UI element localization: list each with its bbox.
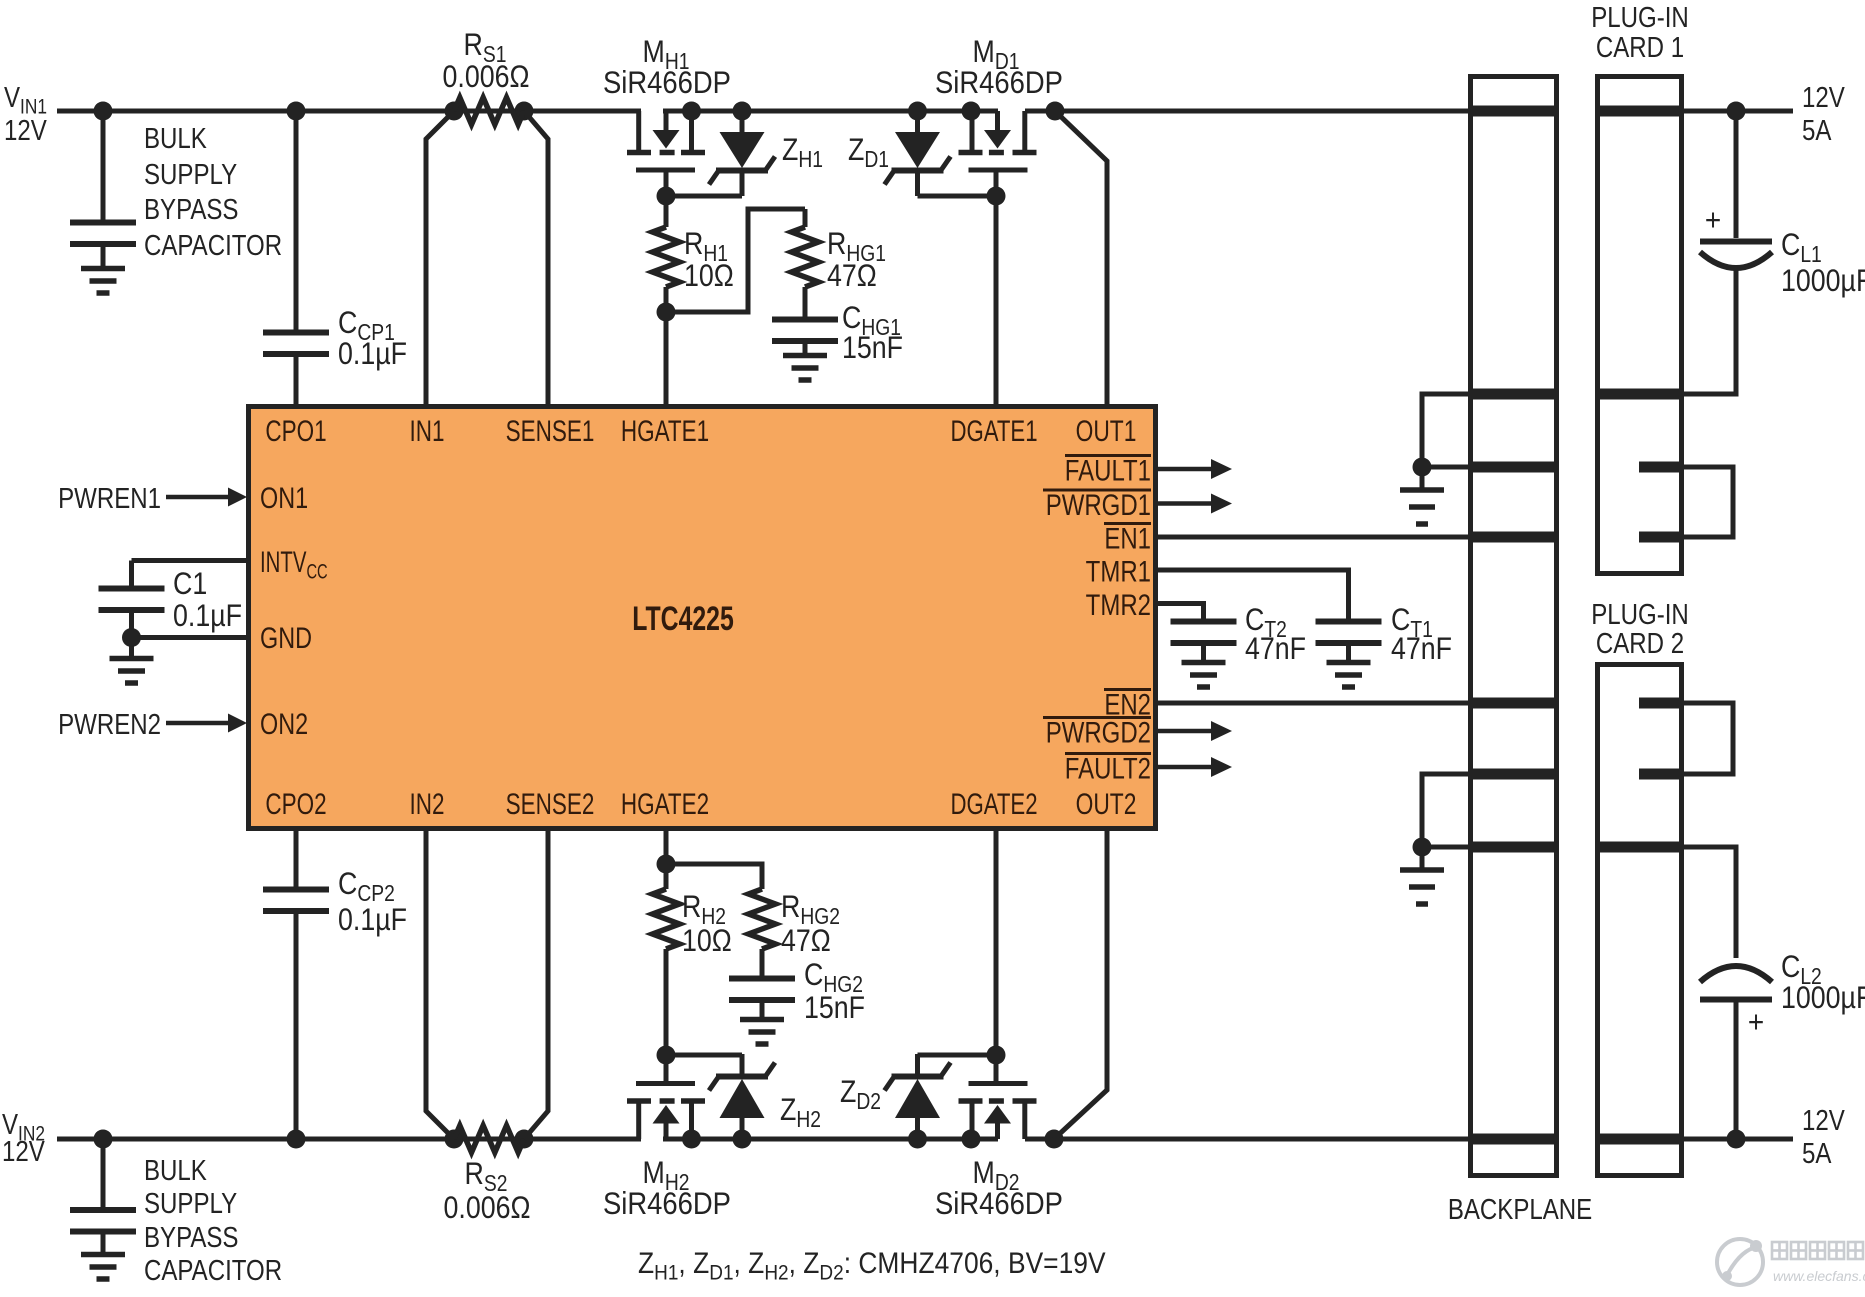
label CCP1 0.1uF	[338, 306, 395, 345]
wire RH2 node to RHG2	[666, 864, 762, 889]
pin ON1 label	[260, 481, 308, 514]
wire PWRGD1 output arrow	[1158, 501, 1212, 506]
pin backplane VIN1 bar	[1468, 106, 1559, 117]
wire card2 detect loop	[1684, 703, 1733, 774]
pin HGATE2 label	[621, 787, 709, 821]
wire CPO2 to capacitor CCP2	[294, 831, 299, 888]
pin EN1 label	[1104, 521, 1151, 555]
wire backplane gnd1 jumper	[1422, 394, 1468, 467]
svg-text:ON2: ON2	[260, 707, 308, 740]
svg-text:0.1µF: 0.1µF	[338, 903, 407, 937]
wire HGATE2 from chip	[664, 831, 669, 864]
wire TMR2 to CT2	[1158, 604, 1204, 621]
svg-text:HGATE1: HGATE1	[621, 414, 709, 448]
svg-text:12V: 12V	[2, 1135, 45, 1168]
svg-text:5A: 5A	[1802, 1137, 1832, 1170]
wire top rail card segment	[1682, 109, 1793, 114]
node dot MD2 drain	[962, 1130, 981, 1149]
label 12V 5A card1	[1802, 81, 1845, 114]
diode zener ZH2	[740, 1118, 745, 1140]
node dot ZH2 bottom	[733, 1130, 752, 1149]
pin DGATE2 label	[950, 787, 1037, 821]
svg-text:SiR466DP: SiR466DP	[603, 1186, 731, 1221]
pin backplane GND1 bar	[1468, 389, 1559, 400]
svg-text:BULK: BULK	[144, 1154, 207, 1187]
diode zener ZD1	[915, 111, 920, 133]
wire MD1 gate lead	[994, 170, 999, 196]
label 12V 5A card2	[1802, 1104, 1845, 1137]
label ZD1	[848, 133, 889, 172]
wire card1 detect loop	[1684, 467, 1733, 537]
node dot HGATE1 gate node	[657, 187, 676, 206]
svg-text:EN1: EN1	[1104, 521, 1151, 555]
pin IN1 label	[409, 414, 444, 448]
svg-text:OUT1: OUT1	[1076, 414, 1137, 448]
svg-text:IN1: IN1	[409, 414, 444, 448]
node dot RH1 bottom HGATE1	[657, 303, 676, 322]
pin backplane VIN2 bar	[1468, 1134, 1559, 1145]
svg-text:FAULT2: FAULT2	[1065, 751, 1151, 785]
svg-text:SENSE2: SENSE2	[506, 787, 595, 821]
svg-text:ON1: ON1	[260, 481, 308, 514]
label PWREN1	[58, 482, 161, 515]
wire ZH1 cathode to gate node	[666, 194, 742, 199]
capacitor CL2 1000uF polarized	[1684, 847, 1736, 958]
capacitor CL1 1000uF polarized	[1734, 111, 1739, 238]
node dot RH2 top HGATE2	[657, 855, 676, 874]
wire ZD1 cathode to DGATE1 node	[918, 194, 997, 199]
label RS2 value	[465, 1157, 508, 1196]
resistor RH1 10ohm	[653, 227, 680, 287]
node junction dot CPO1	[287, 102, 306, 121]
label RHG2 47	[781, 890, 840, 929]
pin DGATE1 label	[950, 414, 1037, 448]
wire EN2 to backplane	[1158, 701, 1468, 706]
svg-text:15nF: 15nF	[804, 991, 865, 1025]
wire HGATE1 to chip	[664, 312, 669, 404]
watermark elecfans text	[1772, 1242, 1787, 1259]
pin card2 detect bar upper	[1639, 698, 1684, 709]
wire ZH2 cathode to gate node	[666, 1053, 742, 1058]
wire VIN2 bottom rail left segment	[57, 1137, 641, 1142]
node dot ZD2 bottom	[908, 1130, 927, 1149]
wire OUT2 from rail to chip	[1054, 831, 1107, 1139]
node dot HGATE2 gate node	[657, 1046, 676, 1065]
diode zener ZH1	[740, 111, 745, 133]
wire OUT1 from rail to chip	[1055, 111, 1107, 404]
wire PWREN2 arrow to ON2	[166, 721, 229, 726]
svg-text:1000µF: 1000µF	[1781, 981, 1865, 1015]
watermark elecfans logo	[1717, 1239, 1763, 1285]
label BULK SUPPLY BYPASS CAPACITOR top	[144, 122, 207, 155]
wire TMR1 to CT1	[1158, 570, 1349, 620]
svg-text:CPO1: CPO1	[265, 414, 326, 448]
node VIN2 input label	[2, 1108, 45, 1146]
label CL1 1000uF	[1781, 228, 1822, 267]
node dot OUT1 rail	[1046, 102, 1065, 121]
svg-text:PWRGD1: PWRGD1	[1046, 487, 1151, 521]
pin TMR1 label	[1086, 554, 1151, 588]
node dot MH2 drain	[682, 1130, 701, 1149]
label ZH1	[782, 133, 823, 172]
wire backplane gnd2 jumper	[1422, 774, 1468, 847]
pin card1 detect bar lower	[1639, 532, 1684, 543]
pin PWRGD2 label	[1046, 715, 1151, 749]
svg-text:ZH1, ZD1, ZH2, ZD2: CMHZ4706,: ZH1, ZD1, ZH2, ZD2: CMHZ4706, BV=19V	[638, 1245, 1106, 1285]
svg-text:5A: 5A	[1802, 114, 1832, 147]
wire RH1 node to RHG1	[666, 209, 805, 312]
node dot backplane gnd2	[1413, 838, 1432, 857]
label RH2 10	[682, 890, 726, 929]
capacitor CHG1 15nF	[772, 317, 838, 323]
label MH2 SiR466DP	[643, 1156, 690, 1195]
label ZD2	[840, 1075, 881, 1114]
wire EN1 to backplane	[1158, 535, 1468, 540]
svg-text:PLUG-IN: PLUG-IN	[1591, 1, 1689, 34]
svg-text:10Ω: 10Ω	[682, 924, 732, 958]
svg-text:SUPPLY: SUPPLY	[144, 1187, 237, 1220]
wire MH1 gate lead	[664, 170, 669, 196]
diode zener ZD2	[915, 1118, 920, 1140]
svg-text:SiR466DP: SiR466DP	[935, 65, 1063, 100]
pin FAULT1 label	[1065, 453, 1151, 487]
ground bulk bypass 2	[81, 1252, 125, 1258]
wire GND pin	[132, 635, 247, 640]
wire VIN1 top rail left segment	[57, 109, 641, 114]
svg-text:BACKPLANE: BACKPLANE	[1448, 1193, 1592, 1226]
svg-text:SUPPLY: SUPPLY	[144, 158, 237, 191]
svg-text:CPO2: CPO2	[265, 787, 326, 821]
label CHG1 15nF	[842, 301, 901, 340]
ground C1	[110, 656, 154, 662]
pin SENSE1 label	[506, 414, 595, 448]
svg-text:OUT2: OUT2	[1076, 787, 1137, 821]
svg-text:10Ω: 10Ω	[684, 259, 734, 293]
wire FAULT2 output arrow	[1158, 765, 1212, 770]
svg-text:15nF: 15nF	[842, 331, 903, 365]
pin ON2 label	[260, 707, 308, 740]
pin OUT2 label	[1076, 787, 1137, 821]
pin backplane gnd2-sense bar	[1468, 769, 1559, 780]
label PLUG-IN CARD 2	[1591, 598, 1689, 631]
label BACKPLANE	[1448, 1193, 1592, 1226]
ground CHG1	[783, 353, 827, 359]
label CT1 47nF	[1391, 603, 1433, 642]
node dot GND C1	[122, 628, 141, 647]
label RHG1 47	[827, 227, 886, 266]
capacitor CT1 47nF	[1316, 619, 1382, 625]
node dot DGATE1 gate node	[987, 187, 1006, 206]
svg-text:1000µF: 1000µF	[1781, 264, 1865, 298]
pin card2 GND2 bar	[1595, 842, 1684, 853]
wire bottom rail middle segment	[663, 1137, 998, 1142]
svg-text:SENSE1: SENSE1	[506, 414, 595, 448]
svg-text:PLUG-IN: PLUG-IN	[1591, 598, 1689, 631]
capacitor bulk supply bypass 2	[101, 1139, 106, 1208]
label BULK SUPPLY BYPASS CAPACITOR bottom	[144, 1154, 207, 1187]
capacitor CCP2 0.1uF	[263, 887, 329, 893]
svg-text:LTC4225: LTC4225	[632, 600, 734, 638]
capacitor CCP1 0.1uF	[263, 330, 329, 336]
pin backplane EN1 bar	[1468, 532, 1559, 543]
label RS1 value	[464, 28, 507, 67]
connector plug-in card 2 outline	[1598, 665, 1682, 1176]
label ZH2	[780, 1093, 821, 1132]
svg-text:12V: 12V	[1802, 81, 1845, 114]
svg-text:47nF: 47nF	[1245, 632, 1306, 666]
capacitor C1 0.1uF	[99, 586, 165, 592]
wire PWREN1 arrow to ON1	[166, 495, 229, 500]
pin PWRGD1 label	[1046, 487, 1151, 521]
ground bulk bypass 1	[81, 266, 125, 272]
wire DGATE2 to chip	[994, 831, 999, 1055]
svg-text:BYPASS: BYPASS	[144, 193, 238, 226]
svg-text:47nF: 47nF	[1391, 632, 1452, 666]
svg-text:0.006Ω: 0.006Ω	[443, 60, 530, 94]
label CHG2 15nF	[804, 958, 863, 997]
pin card2 detect bar lower	[1639, 769, 1684, 780]
wire bottom rail right segment	[1025, 1137, 1470, 1142]
ground backplane gnd1	[1420, 467, 1425, 488]
svg-text:SiR466DP: SiR466DP	[603, 65, 731, 100]
node dot MD1 drain	[962, 102, 981, 121]
pin GND label	[260, 621, 312, 654]
pin card1 VIN1 bar	[1595, 106, 1684, 117]
wire SENSE1 kelvin	[524, 111, 548, 404]
pin CPO1 label	[265, 414, 326, 448]
svg-text:CAPACITOR: CAPACITOR	[144, 229, 282, 262]
svg-text:TMR1: TMR1	[1086, 554, 1151, 588]
node dot OUT2 rail	[1045, 1130, 1064, 1149]
pin card1 GND1 bar	[1595, 389, 1684, 400]
pin backplane EN2 bar	[1468, 698, 1559, 709]
svg-text:+: +	[1748, 1005, 1764, 1040]
label MD1 SiR466DP	[973, 35, 1020, 74]
label MD2 SiR466DP	[973, 1156, 1020, 1195]
svg-text:47Ω: 47Ω	[781, 924, 831, 958]
svg-text:C1: C1	[173, 567, 207, 601]
label CL2 1000uF	[1781, 950, 1822, 989]
pin OUT1 label	[1076, 414, 1137, 448]
svg-text:TMR2: TMR2	[1086, 587, 1151, 621]
wire MH2 gate lead	[664, 1055, 669, 1084]
connector backplane outline	[1471, 77, 1557, 1176]
pin TMR2 label	[1086, 587, 1151, 621]
resistor RHG1 47ohm	[803, 209, 808, 227]
wire PWRGD2 output arrow	[1158, 729, 1212, 734]
pin FAULT2 label	[1065, 751, 1151, 785]
resistor RH2 10ohm	[664, 864, 669, 889]
svg-text:0.006Ω: 0.006Ω	[444, 1191, 531, 1225]
resistor RS1 0.006ohm sense	[445, 102, 464, 121]
node junction dot VIN2 bulk cap	[94, 1130, 113, 1149]
svg-text:+: +	[1705, 203, 1721, 238]
svg-text:DGATE1: DGATE1	[950, 414, 1037, 448]
svg-text:BYPASS: BYPASS	[144, 1221, 238, 1254]
wire IN2 kelvin	[426, 831, 454, 1139]
ground CT2	[1182, 660, 1226, 666]
ground backplane gnd2	[1420, 847, 1425, 868]
node dot ZD1 top	[908, 102, 927, 121]
ground CT1	[1327, 660, 1371, 666]
transistor MD1 SiR466DP	[1013, 150, 1037, 156]
resistor RHG2 47ohm	[749, 889, 776, 949]
label CT2 47nF	[1245, 603, 1287, 642]
wire FAULT1 output arrow	[1158, 467, 1212, 472]
capacitor CT2 47nF	[1171, 619, 1237, 625]
capacitor bulk supply bypass 1	[101, 111, 106, 221]
svg-text:PWREN2: PWREN2	[58, 708, 161, 741]
op-amp U1 LTC4225 hot swap controller IC body	[249, 407, 1156, 829]
pin EN2 label	[1104, 687, 1151, 721]
wire top rail middle segment	[663, 109, 998, 114]
label zener note CMHZ4706	[638, 1245, 1106, 1285]
label PLUG-IN CARD 1	[1591, 1, 1689, 34]
resistor RS2 0.006ohm sense	[445, 1130, 464, 1149]
node junction dot VIN1 bulk cap	[94, 102, 113, 121]
node dot CL2 12V	[1727, 1130, 1746, 1149]
connector plug-in card 1 outline	[1598, 77, 1682, 574]
svg-text:SiR466DP: SiR466DP	[935, 1186, 1063, 1221]
svg-text:www.elecfans.com: www.elecfans.com	[1773, 1268, 1865, 1284]
svg-text:CARD 2: CARD 2	[1596, 627, 1684, 660]
pin HGATE1 label	[621, 414, 709, 448]
wire DGATE1 to chip	[994, 196, 999, 404]
pin SENSE2 label	[506, 787, 595, 821]
svg-text:0.1µF: 0.1µF	[338, 337, 407, 371]
svg-text:DGATE2: DGATE2	[950, 787, 1037, 821]
node dot ZH1 top	[733, 102, 752, 121]
node dot MH1 drain	[682, 102, 701, 121]
pin INTVCC label	[260, 546, 328, 583]
svg-text:FAULT1: FAULT1	[1065, 453, 1151, 487]
wire top rail right segment	[1025, 109, 1470, 114]
transistor MH2 SiR466DP	[627, 1098, 651, 1104]
label RH1 10	[684, 227, 728, 266]
label MH1 SiR466DP	[643, 35, 690, 74]
pin backplane GND2 bar	[1468, 842, 1559, 853]
node dot CL1 12V	[1727, 102, 1746, 121]
node junction dot CPO2	[287, 1130, 306, 1149]
wire bottom rail card segment	[1682, 1137, 1793, 1142]
transistor MH1 SiR466DP	[627, 150, 651, 156]
svg-text:GND: GND	[260, 621, 312, 654]
pin card1 detect bar upper	[1639, 462, 1684, 473]
svg-text:BULK: BULK	[144, 122, 207, 155]
node dot DGATE2 gate node	[987, 1046, 1006, 1065]
wire INTVCC	[132, 558, 247, 563]
svg-text:12V: 12V	[1802, 1104, 1845, 1137]
wire ZD2 cathode to DGATE2 node	[918, 1053, 997, 1058]
wire SENSE2 kelvin	[524, 831, 548, 1139]
svg-text:IN2: IN2	[409, 787, 444, 821]
svg-text:CARD 1: CARD 1	[1596, 31, 1684, 64]
label PWREN2	[58, 708, 161, 741]
svg-text:12V: 12V	[4, 114, 47, 147]
capacitor CHG2 15nF	[729, 976, 795, 982]
wire IN1 kelvin	[426, 111, 454, 404]
label LTC4225	[632, 600, 734, 638]
pin backplane sense-gnd bar	[1468, 462, 1559, 473]
node dot backplane gnd1	[1413, 458, 1432, 477]
label CCP2 0.1uF	[338, 867, 395, 906]
transistor MD2 SiR466DP	[1013, 1098, 1037, 1104]
svg-text:HGATE2: HGATE2	[621, 787, 709, 821]
wire CPO1 to capacitor CCP1	[294, 111, 299, 331]
svg-text:CAPACITOR: CAPACITOR	[144, 1254, 282, 1287]
svg-text:47Ω: 47Ω	[827, 259, 877, 293]
svg-text:0.1µF: 0.1µF	[173, 599, 242, 633]
pin CPO2 label	[265, 787, 326, 821]
svg-text:PWREN1: PWREN1	[58, 482, 161, 515]
node VIN1 input label	[4, 81, 47, 119]
ground CHG2	[740, 1017, 784, 1023]
svg-text:PWRGD2: PWRGD2	[1046, 715, 1151, 749]
label C1 0.1uF	[173, 567, 207, 601]
wire MD2 gate lead	[994, 1055, 999, 1084]
pin IN2 label	[409, 787, 444, 821]
pin card2 VIN2 bar	[1595, 1134, 1684, 1145]
